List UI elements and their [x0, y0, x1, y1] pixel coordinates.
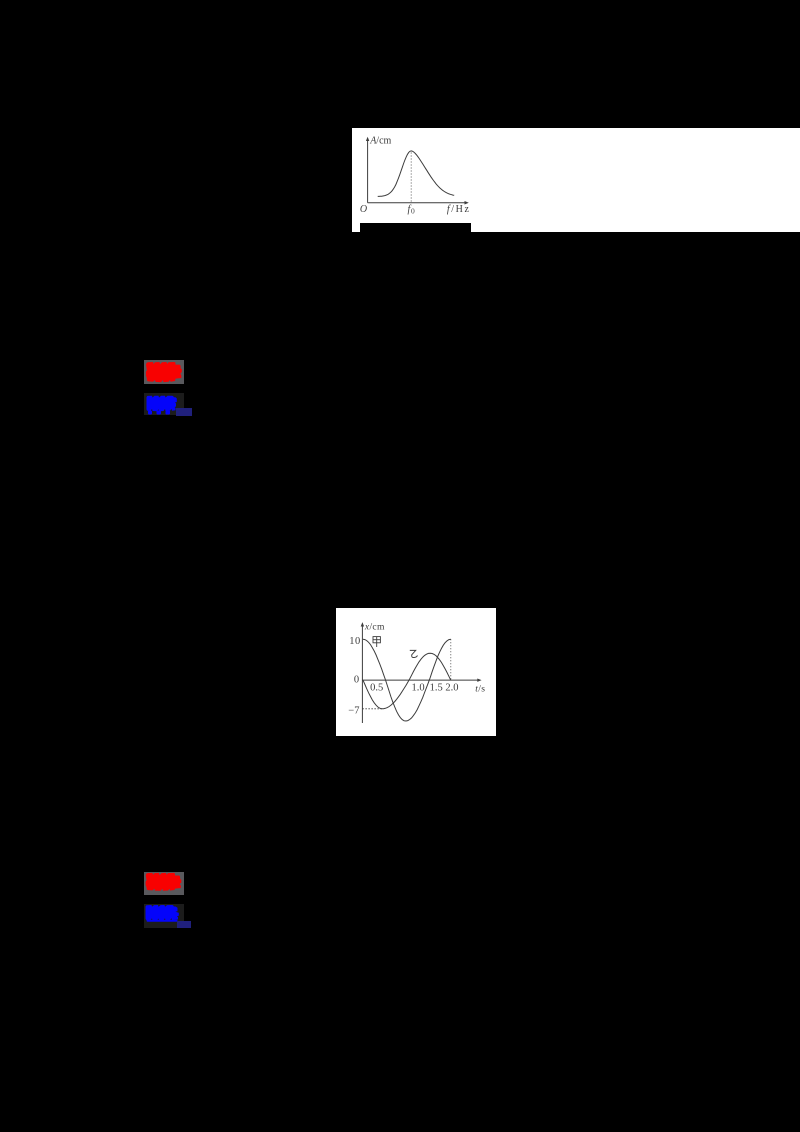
svg-text:1.0: 1.0 — [412, 682, 425, 693]
graph 2: displacement-time curves — [336, 608, 496, 736]
bell curve — [378, 151, 455, 197]
svg-text:10: 10 — [349, 636, 361, 647]
dotted vertical at t=2.0 — [450, 639, 452, 680]
x arrowhead — [477, 678, 481, 681]
navy rect 2 — [177, 921, 192, 928]
curve B (-7sin pi t) — [363, 653, 451, 708]
teeth — [148, 410, 152, 414]
svg-text:x/cm: x/cm — [364, 621, 385, 632]
red answer box 2 — [144, 872, 184, 895]
svg-text:0: 0 — [354, 674, 359, 685]
svg-text:f/Hz: f/Hz — [447, 204, 471, 215]
label yi (Chinese) — [410, 650, 418, 657]
x-axis — [368, 202, 466, 204]
blue analysis box 1 — [144, 393, 184, 415]
red answer box 1 — [144, 360, 184, 384]
navy rect 1 — [176, 408, 192, 416]
svg-text:t/s: t/s — [475, 683, 485, 694]
curve A (10cos pi t) — [363, 639, 451, 721]
dashed line at -7 — [362, 708, 381, 710]
y-axis — [367, 139, 369, 202]
svg-text:0.5: 0.5 — [370, 682, 383, 693]
white band containing resonance-curve figure — [352, 128, 800, 232]
y arrowhead — [366, 136, 369, 140]
blue analysis box 2 — [144, 904, 184, 928]
x-axis — [362, 679, 478, 681]
svg-text:−7: −7 — [348, 705, 359, 716]
svg-text:O: O — [360, 204, 367, 215]
black notch at bottom of band — [360, 223, 471, 232]
x arrowhead — [465, 201, 469, 204]
y-axis — [361, 625, 363, 722]
svg-text:2.0: 2.0 — [445, 682, 458, 693]
svg-text:1.5: 1.5 — [430, 682, 443, 693]
label jia (Chinese) — [373, 636, 380, 646]
white box containing x-t waveform figure — [336, 608, 496, 736]
svg-text:f0: f0 — [408, 204, 415, 216]
svg-text:A/cm: A/cm — [369, 135, 391, 146]
graph 1: amplitude vs frequency resonance curve — [352, 128, 482, 232]
y arrowhead — [361, 622, 364, 626]
dotted vertical at f0 — [410, 152, 412, 202]
